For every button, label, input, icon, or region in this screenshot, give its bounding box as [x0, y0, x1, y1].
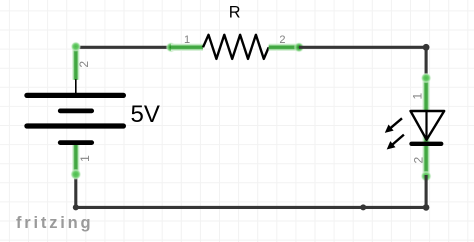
node: top-right junction dot [423, 44, 430, 51]
resistor R zigzag [203, 35, 269, 59]
wire: resistor pin 2 to bendpoint (green) [269, 44, 299, 51]
wire: battery pin1 lead (green) [70, 143, 81, 180]
svg-text:R: R [229, 4, 241, 22]
node: top-rail left bendpoint [166, 42, 177, 53]
node: bottom-left corner dot [73, 204, 79, 210]
svg-text:1: 1 [184, 34, 190, 46]
svg-text:1: 1 [411, 92, 425, 99]
svg-text:1: 1 [78, 155, 92, 162]
node: bottom rail bendpoint dot [360, 204, 366, 210]
node: bottom-right corner dot [423, 204, 430, 211]
wire: battery pin2 up to top-left corner (green) [71, 41, 81, 79]
LED emission arrows [385, 118, 404, 149]
svg-text:fritzing: fritzing [16, 214, 93, 232]
wire: right rail upper segment [425, 47, 428, 80]
node: LED lead endpoint (green cap) [421, 171, 432, 182]
wire: bottom rail right segment [363, 206, 426, 209]
wire: right rail lower segment [425, 175, 428, 207]
svg-text:5V: 5V [131, 101, 160, 128]
wire: top rail, corner to bendpoint [76, 46, 171, 49]
battery BAT1 (pin lead + 4 plates) [27, 80, 124, 143]
wire: top rail to top-right corner [299, 46, 426, 49]
wire: bottom rail left segment [76, 206, 363, 209]
node: top-rail right bendpoint [294, 42, 305, 53]
svg-text:2: 2 [411, 156, 425, 163]
wire: battery pin1 lower black segment [74, 174, 77, 207]
LED D1 (diode triangle, centre line, cathode bar) [411, 111, 445, 144]
wire: bendpoint to resistor pin 1 (green) [171, 44, 203, 51]
svg-text:2: 2 [77, 61, 91, 68]
wire: LED leads (green, under symbol) [421, 73, 432, 177]
